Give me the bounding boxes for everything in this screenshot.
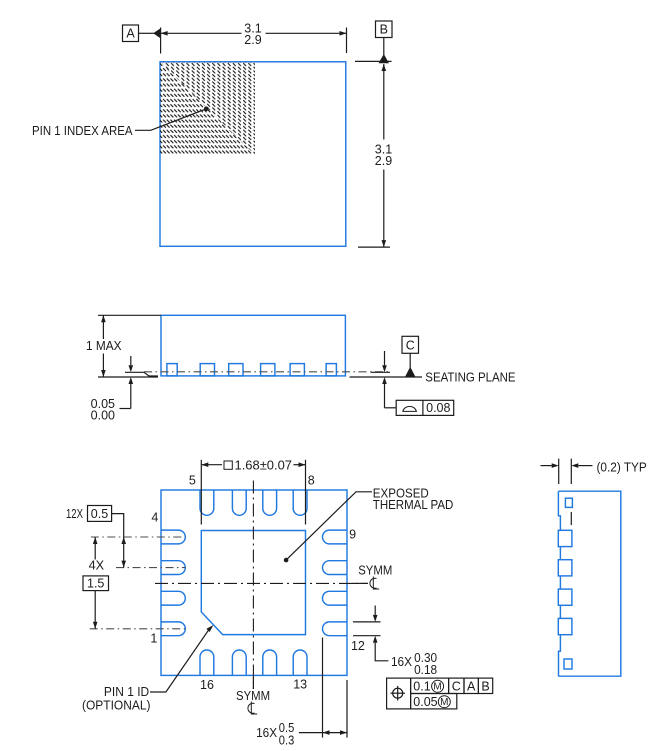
svg-text:SYMM: SYMM [358, 563, 392, 577]
leader to pin 1 chamfer [150, 629, 210, 692]
position feature control frame [387, 678, 411, 709]
dimension line 3.1/2.9 right [383, 64, 385, 140]
profile body top edge [558, 491, 620, 676]
datum A frame [123, 25, 139, 42]
pin centerline A (pin 4) [91, 536, 186, 538]
profile left edge segments [558, 491, 560, 530]
svg-text:0.00: 0.00 [91, 408, 115, 422]
pin centerline B (pin 3) [116, 567, 185, 569]
pad dimension line [201, 464, 222, 466]
pin 10 pad [323, 561, 348, 575]
1.5 basic dim box [83, 576, 109, 591]
horizontal SYMM centerline [155, 582, 368, 584]
pin 1 index hatch area (horizontal rows, lower-left) [160, 62, 255, 155]
profile pad 3 [558, 589, 572, 605]
svg-text:12X: 12X [66, 507, 83, 521]
svg-text:12: 12 [351, 639, 365, 653]
svg-text:0.18: 0.18 [414, 663, 437, 677]
svg-text:0.3: 0.3 [279, 733, 295, 747]
datum B leader [383, 38, 385, 56]
pin 2 pad [161, 591, 185, 605]
datum C frame [402, 336, 419, 353]
side view body outline [161, 315, 345, 376]
svg-text:(0.2) TYP: (0.2) TYP [597, 460, 647, 474]
dimension line 3.1/2.9 top [161, 32, 242, 34]
pin 12 width extension lines [353, 621, 381, 623]
pin 14 pad [263, 650, 277, 675]
svg-text:PIN 1 ID: PIN 1 ID [104, 685, 149, 699]
svg-text:5: 5 [189, 474, 196, 488]
1 MAX top extension line [98, 314, 161, 316]
pin 1 index hatch area (vertical columns, upper-right) [160, 62, 255, 155]
svg-text:1 MAX: 1 MAX [86, 339, 122, 353]
svg-text:1: 1 [150, 632, 157, 646]
svg-text:B: B [481, 680, 489, 694]
side view terminal 3 [229, 364, 243, 376]
pin 13 pad [293, 650, 307, 675]
standoff dim lower arrow left [129, 377, 134, 384]
horizontal SYMM centerline end segment [352, 582, 368, 584]
top edge extension line (right dim) [355, 60, 392, 62]
svg-text:13: 13 [293, 678, 307, 692]
svg-text:0.05: 0.05 [413, 695, 437, 709]
svg-text:1.5: 1.5 [87, 577, 104, 591]
svg-text:M: M [433, 682, 441, 693]
datum B frame [376, 21, 393, 38]
vertical SYMM centerline [252, 481, 254, 690]
svg-text:16X: 16X [391, 655, 413, 669]
pin centerline C (pin 1) [90, 628, 186, 630]
side view centerline dash-dot [144, 371, 390, 373]
svg-text:8: 8 [308, 474, 315, 488]
exposed thermal pad with pin1 chamfer [201, 531, 305, 635]
svg-text:PIN 1 INDEX AREA: PIN 1 INDEX AREA [32, 124, 133, 138]
pad length extension lines [322, 638, 324, 738]
pin 12 pad [323, 622, 348, 636]
vertical SYMM centerline end segment [252, 677, 254, 689]
svg-text:0.08: 0.08 [426, 401, 450, 415]
0.5 leader elbow [112, 514, 124, 536]
seating plane datum triangle [405, 367, 416, 377]
pin 15 pad [232, 650, 246, 675]
svg-text:16X: 16X [256, 726, 278, 740]
svg-text:4: 4 [151, 510, 158, 524]
datum A triangle [153, 28, 160, 38]
datum B triangle [379, 54, 389, 63]
svg-text:B: B [380, 23, 388, 37]
extension line left (top dim) [160, 28, 162, 54]
profile pad 2 [558, 560, 572, 576]
flatness symbol [403, 406, 417, 411]
pad length dimension line [299, 732, 347, 734]
top view package body outline [160, 62, 346, 247]
profile end terminal top [565, 498, 572, 507]
flatness feature control frame [396, 400, 454, 415]
svg-text:16: 16 [200, 678, 214, 692]
pin 7 pad [263, 490, 277, 516]
standoff dim upper arrow left [130, 356, 132, 365]
pin 11 pad [323, 591, 348, 605]
leader to hatch area [135, 109, 206, 131]
svg-text:SYMM: SYMM [236, 689, 270, 703]
pin 1 pad [161, 622, 185, 636]
1 MAX dimension line [102, 315, 104, 339]
centerline dash below dimension [570, 512, 572, 525]
svg-text:C: C [452, 680, 461, 694]
svg-text:THERMAL PAD: THERMAL PAD [373, 498, 454, 512]
datum A leader [139, 32, 155, 34]
extension line right (top dim) [346, 28, 348, 54]
profile pad 4 [558, 618, 572, 634]
centerline symbol bottom [248, 703, 255, 713]
lead outline left [125, 372, 158, 376]
(0.2) TYP dimension arrows [541, 465, 552, 467]
pin 9 pad [323, 530, 348, 544]
0.5 pitch dimension line [123, 536, 125, 568]
side view terminal 4 [261, 364, 275, 376]
square symbol [224, 461, 232, 469]
pin 4 pad [161, 530, 186, 544]
svg-text:0.1: 0.1 [413, 680, 430, 694]
svg-text:2.9: 2.9 [244, 33, 261, 47]
svg-text:(OPTIONAL): (OPTIONAL) [82, 699, 151, 713]
pin 5 pad [200, 490, 214, 516]
lead outline right [371, 371, 390, 373]
svg-text:9: 9 [349, 527, 356, 541]
pin 3 pad [161, 561, 185, 575]
svg-text:SEATING PLANE: SEATING PLANE [425, 371, 515, 385]
0.5 basic dim box [88, 506, 112, 522]
leader to thermal pad [286, 492, 372, 560]
svg-text:C: C [406, 339, 415, 353]
side view terminal 5 [290, 364, 304, 376]
svg-text:A: A [126, 27, 135, 41]
side view terminal 2 [200, 364, 214, 376]
seating plane line left [98, 376, 158, 378]
svg-text:M: M [440, 697, 448, 708]
datum C leader [409, 353, 411, 368]
pin width dim lower arrow [373, 636, 378, 643]
position symbol [393, 688, 403, 698]
(0.2) TYP extension lines [558, 459, 560, 484]
pin 6 pad [232, 490, 246, 516]
svg-text:2.9: 2.9 [375, 154, 392, 168]
pad dim extension line right [305, 460, 307, 525]
bottom edge extension line (right dim) [358, 246, 390, 248]
seating plane line right [350, 376, 423, 378]
standoff arrows right [384, 351, 386, 365]
side view terminal 1 [167, 364, 177, 376]
svg-text:0.5: 0.5 [91, 507, 108, 521]
pin 8 pad [293, 490, 307, 515]
centerline symbol right [370, 578, 377, 588]
profile pad 1 [558, 530, 572, 546]
svg-text:4X: 4X [89, 559, 105, 573]
pad dim extension line left [200, 460, 202, 525]
pin width dim upper arrow [374, 606, 376, 615]
1.5 dimension line [94, 537, 96, 560]
bottom view package outline [161, 490, 347, 675]
svg-text:1.68±0.07: 1.68±0.07 [235, 459, 293, 473]
pin 16 pad [200, 650, 214, 675]
profile end terminal bottom [564, 659, 572, 669]
svg-text:A: A [467, 680, 476, 694]
side view terminal 6 [326, 364, 336, 376]
